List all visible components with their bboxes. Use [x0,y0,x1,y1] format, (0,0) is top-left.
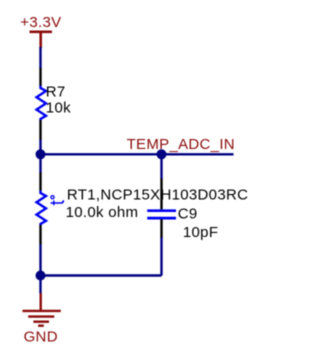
svg-text:TEMP_ADC_IN: TEMP_ADC_IN [127,136,235,153]
svg-text:10.0k ohm: 10.0k ohm [66,204,139,221]
thermistor RT1 [37,173,64,245]
svg-text:GND: GND [24,328,58,345]
wire R7 to node A [39,140,41,155]
svg-text:RT1,NCP15XH103D03RC: RT1,NCP15XH103D03RC [67,186,248,203]
wire node B to C9 [160,154,162,179]
capacitor C9 [147,179,176,238]
svg-text:R7: R7 [46,83,66,100]
wire node A to RT1 [39,154,41,173]
svg-text:C9: C9 [178,206,198,223]
junction node A [36,149,46,159]
svg-text:10k: 10k [46,100,71,117]
wire node A to net label (horizontal) [41,153,234,155]
junction node C [36,271,46,281]
power port +3.3V [30,32,53,48]
svg-text:10pF: 10pF [183,224,218,241]
wire bottom horizontal [41,274,162,276]
resistor R7 [37,68,47,140]
svg-text:+3.3V: +3.3V [20,14,61,31]
wire C9 to bottom [160,238,162,276]
junction node B [157,149,167,159]
wire power to R7 [39,47,41,69]
ground GND [23,293,61,326]
wire node C to ground [39,276,41,294]
wire RT1 to node C [39,244,41,275]
